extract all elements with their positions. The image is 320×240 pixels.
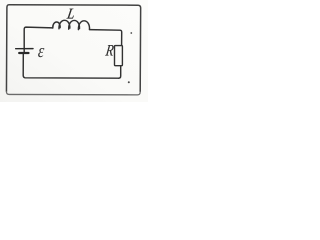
speck near bottom right (128, 81, 130, 83)
border frame (left+top+right) (6, 5, 140, 92)
wire: resistor bottom stub to bottom-right corner (119, 66, 121, 78)
border frame (bottom, fainter) (6, 92, 140, 95)
wire: left vertical from top corner through battery long plate (24, 27, 53, 52)
wire: top right from coil to corner and down to resistor (90, 30, 122, 45)
resistor R box (115, 46, 123, 66)
wire: bottom run (23, 53, 118, 78)
paper background (0, 0, 148, 102)
battery short plate (19, 52, 28, 54)
speck near top right (130, 32, 132, 34)
inductor L (coil, 4 humps) (53, 22, 60, 28)
battery long plate (16, 48, 33, 50)
